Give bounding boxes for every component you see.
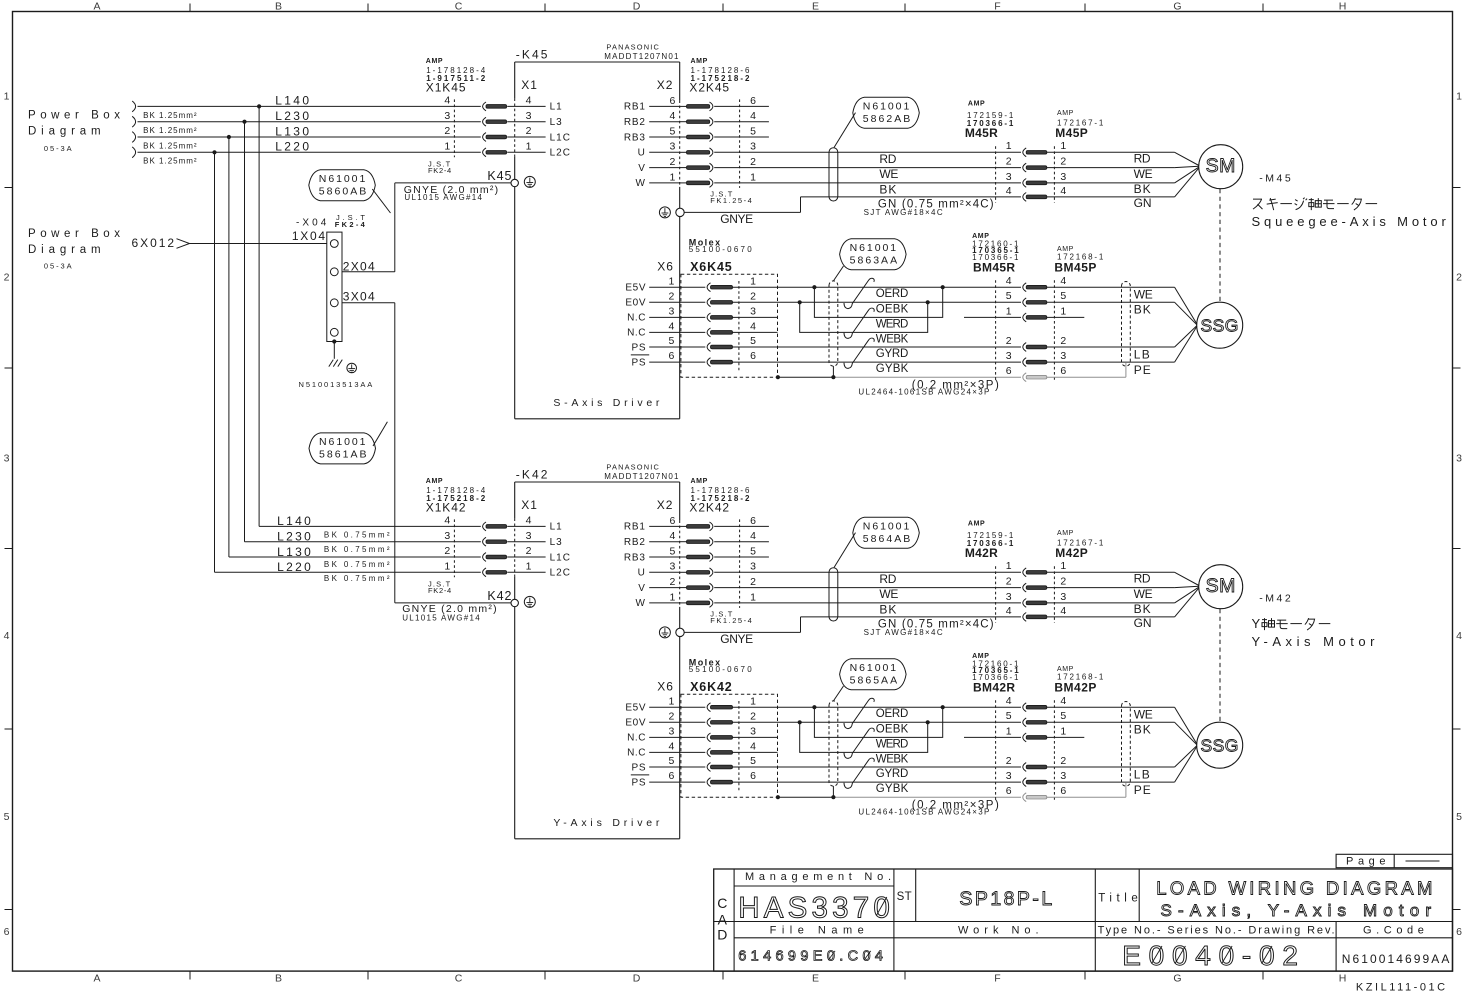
svg-text:3: 3: [1060, 591, 1066, 603]
svg-text:5: 5: [750, 545, 756, 557]
motor phase wires to SM K42: [1047, 572, 1199, 631]
svg-text:E5V: E5V: [625, 283, 646, 294]
svg-text:4: 4: [669, 741, 675, 753]
svg-text:BK: BK: [1134, 182, 1151, 196]
svg-text:OERD: OERD: [876, 288, 909, 300]
svg-text:C: C: [455, 1, 463, 13]
svg-text:L130: L130: [275, 124, 309, 138]
svg-text:BK 0.75mm²: BK 0.75mm²: [324, 530, 390, 539]
svg-text:2: 2: [750, 156, 756, 168]
connector M45R label: [965, 101, 1014, 140]
svg-text:BK 0.75mm²: BK 0.75mm²: [324, 574, 390, 583]
svg-text:1: 1: [670, 171, 676, 183]
terminal block earth: [329, 339, 357, 372]
svg-text:4: 4: [1456, 630, 1462, 642]
svg-text:X6: X6: [657, 680, 674, 694]
connector X1K45 pins: [444, 95, 571, 159]
svg-text:6: 6: [1006, 785, 1012, 797]
servo motor SM -M42: [1199, 565, 1243, 609]
GNYE label K42: [402, 603, 496, 623]
svg-text:PANASONIC: PANASONIC: [606, 462, 659, 471]
motor phase wires to SM K45: [1047, 152, 1199, 211]
svg-text:N.C: N.C: [627, 313, 646, 324]
encoder wire labels K45: [858, 288, 999, 397]
svg-text:N61001: N61001: [863, 521, 910, 533]
svg-text:Power Box: Power Box: [28, 228, 120, 240]
svg-text:4: 4: [4, 630, 10, 642]
earth terminal K45: [487, 169, 535, 188]
svg-text:OERD: OERD: [876, 708, 909, 720]
svg-text:Page: Page: [1346, 856, 1386, 868]
svg-text:2: 2: [669, 710, 675, 722]
svg-text:E0V: E0V: [625, 298, 646, 309]
svg-text:RB3: RB3: [624, 132, 646, 143]
svg-text:3: 3: [526, 110, 532, 122]
svg-text:6: 6: [670, 515, 676, 527]
svg-text:PANASONIC: PANASONIC: [606, 42, 659, 51]
svg-text:LB: LB: [1134, 768, 1150, 782]
svg-text:4: 4: [1060, 275, 1066, 287]
connector X1K42 pins: [444, 515, 571, 579]
svg-text:GNYE: GNYE: [720, 632, 753, 646]
lower feed labels: [277, 514, 390, 583]
wire V phase K45: [714, 167, 1021, 169]
terminal block -X04: [296, 213, 366, 342]
svg-text:GYBK: GYBK: [876, 783, 909, 795]
svg-text:C: C: [717, 895, 727, 911]
svg-text:4: 4: [1060, 605, 1066, 617]
svg-text:V: V: [638, 583, 645, 594]
svg-text:BK: BK: [879, 602, 896, 616]
svg-text:L1: L1: [550, 522, 563, 533]
svg-text:W: W: [635, 178, 645, 189]
svg-text:3: 3: [1006, 350, 1012, 362]
svg-text:X2: X2: [657, 78, 674, 92]
svg-text:5: 5: [1060, 710, 1066, 722]
svg-text:4: 4: [1060, 185, 1066, 197]
cable tag 5863AA: [834, 239, 907, 281]
connector M45P label: [1055, 110, 1104, 140]
svg-text:L1C: L1C: [550, 132, 571, 143]
svg-text:4: 4: [1006, 275, 1012, 287]
svg-text:2: 2: [670, 156, 676, 168]
connector X2K45 label: [689, 58, 750, 94]
wire GNYE K45 motor earth: [684, 197, 1021, 226]
svg-text:-K45: -K45: [516, 48, 548, 62]
svg-text:G: G: [1173, 973, 1181, 985]
svg-text:2: 2: [1060, 335, 1066, 347]
svg-text:Y-Axis Motor: Y-Axis Motor: [1252, 634, 1376, 649]
svg-text:5862AB: 5862AB: [863, 113, 911, 125]
svg-text:3: 3: [750, 561, 756, 573]
svg-text:SP18P-L: SP18P-L: [959, 888, 1052, 910]
svg-text:1: 1: [1006, 725, 1012, 737]
svg-text:1: 1: [750, 591, 756, 603]
svg-text:5864AB: 5864AB: [863, 533, 911, 545]
svg-text:AMP: AMP: [426, 58, 443, 65]
svg-text:N510013513AA: N510013513AA: [299, 380, 373, 389]
svg-text:AMP: AMP: [968, 101, 985, 108]
svg-text:4: 4: [750, 110, 756, 122]
svg-text:GYRD: GYRD: [876, 348, 909, 360]
wire V phase K42: [714, 587, 1021, 589]
svg-text:AMP: AMP: [691, 478, 708, 485]
svg-text:X1K45: X1K45: [426, 80, 466, 94]
svg-text:V: V: [638, 163, 645, 174]
svg-text:L2C: L2C: [550, 568, 571, 579]
svg-text:RB1: RB1: [624, 102, 646, 113]
motor cable sheath K42: [829, 568, 838, 621]
svg-text:PE: PE: [1134, 363, 1151, 377]
svg-text:BK: BK: [1134, 303, 1151, 317]
feed 6X012 entry: [132, 236, 327, 250]
svg-text:3: 3: [4, 453, 10, 465]
wire WEBK parallel loop K45: [800, 302, 928, 332]
svg-text:RB1: RB1: [624, 522, 646, 533]
svg-text:5: 5: [750, 755, 756, 767]
svg-text:5: 5: [1060, 290, 1066, 302]
svg-text:LOAD WIRING DIAGRAM: LOAD WIRING DIAGRAM: [1156, 877, 1432, 898]
link SM to SSG K45: [1219, 189, 1221, 303]
svg-text:SM: SM: [1206, 575, 1236, 597]
connector M45R/M45P pins: [996, 140, 1067, 203]
svg-text:A: A: [718, 911, 728, 927]
svg-text:2: 2: [4, 272, 10, 284]
svg-text:RB2: RB2: [624, 117, 646, 128]
svg-text:6: 6: [750, 350, 756, 362]
svg-text:4: 4: [526, 515, 532, 527]
motor cable sheath K45: [829, 148, 838, 201]
svg-text:1: 1: [1006, 560, 1012, 572]
svg-text:1: 1: [1006, 140, 1012, 152]
connector X2K42 label: [689, 478, 750, 514]
svg-text:L1C: L1C: [550, 552, 571, 563]
svg-text:F: F: [994, 1, 1000, 13]
svg-text:A: A: [93, 1, 100, 13]
svg-text:6: 6: [669, 770, 675, 782]
svg-text:2: 2: [1060, 156, 1066, 168]
twisted pair symbols K45: [844, 278, 874, 368]
svg-text:-M45: -M45: [1259, 173, 1291, 185]
svg-text:BK 0.75mm²: BK 0.75mm²: [324, 545, 390, 554]
svg-text:B: B: [275, 973, 282, 985]
svg-text:M42P: M42P: [1055, 546, 1088, 560]
connector X6K45 shield box: [681, 274, 778, 377]
wire W phase K45: [714, 182, 1021, 184]
svg-text:RB2: RB2: [624, 537, 646, 548]
svg-text:2: 2: [1060, 755, 1066, 767]
GNYE label K45: [404, 184, 498, 202]
svg-text:AMP: AMP: [968, 521, 985, 528]
wire 2X04 to K45 earth: [342, 183, 511, 274]
encoder wires to SSG K45: [1047, 287, 1197, 377]
svg-text:5: 5: [670, 545, 676, 557]
page no. box: [1336, 854, 1452, 867]
svg-text:L3: L3: [550, 117, 563, 128]
wire OEBK E0V K42: [732, 721, 1021, 723]
svg-text:3: 3: [669, 306, 675, 318]
svg-text:HAS3370: HAS3370: [738, 891, 890, 924]
svg-text:X1K42: X1K42: [426, 500, 466, 514]
junction dots encoder K42: [798, 705, 945, 724]
svg-text:H: H: [1339, 973, 1347, 985]
svg-text:K45: K45: [487, 169, 511, 183]
connector X6K42 shield box: [681, 694, 778, 797]
svg-text:MADDT1207N01: MADDT1207N01: [604, 52, 679, 61]
svg-text:WERD: WERD: [876, 738, 909, 750]
svg-text:D: D: [717, 927, 727, 943]
svg-text:WE: WE: [1134, 288, 1153, 302]
svg-text:X6K42: X6K42: [690, 680, 732, 694]
svg-text:WE: WE: [1134, 587, 1153, 601]
svg-text:4: 4: [670, 530, 676, 542]
svg-text:3: 3: [670, 141, 676, 153]
svg-text:1: 1: [1060, 140, 1066, 152]
svg-text:F: F: [994, 973, 1000, 985]
feed drop wires to K42: [212, 104, 480, 572]
svg-text:E: E: [812, 973, 819, 985]
svg-text:2: 2: [526, 125, 532, 137]
svg-text:WE: WE: [879, 587, 898, 601]
svg-text:S-Axis Driver: S-Axis Driver: [553, 397, 660, 409]
svg-text:PS: PS: [632, 357, 647, 368]
svg-text:5: 5: [670, 125, 676, 137]
svg-text:5863AA: 5863AA: [850, 255, 898, 267]
svg-text:UL2464-1061SB AWG24×3P: UL2464-1061SB AWG24×3P: [858, 808, 989, 817]
power box diagram reference 1: [28, 109, 120, 153]
svg-text:X2K42: X2K42: [689, 500, 729, 514]
svg-text:1: 1: [526, 141, 532, 153]
svg-text:1: 1: [4, 91, 10, 103]
svg-text:AMP: AMP: [1057, 530, 1074, 537]
svg-text:ST: ST: [897, 891, 912, 903]
svg-text:1: 1: [1060, 725, 1066, 737]
svg-text:3: 3: [669, 726, 675, 738]
power feed wires L140 L230 L130 L220: [132, 94, 481, 166]
wire WEBK parallel loop K42: [800, 722, 928, 752]
svg-text:2: 2: [1006, 576, 1012, 588]
svg-text:3: 3: [750, 726, 756, 738]
twisted pair symbols K42: [844, 698, 874, 788]
svg-text:6: 6: [4, 926, 10, 938]
svg-text:BK 1.25mm²: BK 1.25mm²: [143, 141, 197, 150]
svg-text:L230: L230: [275, 109, 309, 123]
svg-text:E5V: E5V: [625, 703, 646, 714]
svg-text:6X012: 6X012: [132, 236, 175, 250]
svg-text:D: D: [633, 1, 641, 13]
connector X1K42 label: [426, 478, 486, 514]
svg-text:PS: PS: [632, 777, 647, 788]
svg-text:4: 4: [444, 515, 450, 527]
svg-text:5: 5: [750, 335, 756, 347]
svg-text:4: 4: [444, 95, 450, 107]
svg-text:BM45P: BM45P: [1054, 261, 1096, 275]
wire GYRD PS K45: [732, 346, 1021, 348]
svg-text:L2C: L2C: [550, 148, 571, 159]
svg-text:1: 1: [669, 275, 675, 287]
svg-text:2: 2: [670, 576, 676, 588]
svg-text:M42R: M42R: [965, 546, 998, 560]
svg-text:N.C: N.C: [627, 748, 646, 759]
svg-text:E0V: E0V: [625, 718, 646, 729]
encoder SSG circle K45: [1197, 302, 1243, 348]
svg-text:BK 1.25mm²: BK 1.25mm²: [143, 126, 197, 135]
svg-text:4: 4: [750, 321, 756, 333]
wire U phase K42: [714, 571, 1021, 573]
svg-text:File Name: File Name: [770, 925, 864, 937]
svg-text:-K42: -K42: [516, 468, 548, 482]
encoder cable sheath BM42P side: [1122, 702, 1131, 798]
wire 3X04 to K42 earth: [342, 290, 511, 603]
junction dots encoder K45: [798, 285, 945, 304]
svg-text:2: 2: [1006, 156, 1012, 168]
svg-text:M45R: M45R: [965, 126, 998, 140]
svg-text:U: U: [638, 148, 646, 159]
connector BM45R/BM45P pins: [964, 275, 1084, 382]
connector BM45P label: [1054, 246, 1103, 275]
svg-text:N.C: N.C: [627, 328, 646, 339]
svg-text:Type No.- Series No.- Drawing: Type No.- Series No.- Drawing Rev.: [1098, 925, 1335, 937]
svg-text:GYBK: GYBK: [876, 363, 909, 375]
svg-text:3: 3: [750, 141, 756, 153]
driver K45 box: [515, 62, 680, 419]
wire WERD parallel loop K45: [814, 287, 942, 317]
svg-text:4: 4: [1006, 605, 1012, 617]
svg-text:6: 6: [1060, 365, 1066, 377]
svg-text:X6K45: X6K45: [690, 260, 732, 274]
svg-text:1: 1: [1456, 91, 1462, 103]
wire N.C stubs X6K42: [732, 737, 778, 752]
driver K42 box: [515, 482, 680, 839]
svg-text:Diagram: Diagram: [28, 244, 101, 256]
svg-text:OEBK: OEBK: [876, 303, 909, 315]
svg-text:3: 3: [526, 530, 532, 542]
svg-text:1: 1: [750, 275, 756, 287]
svg-text:6: 6: [750, 95, 756, 107]
svg-text:SSG: SSG: [1200, 316, 1238, 336]
svg-text:WE: WE: [879, 167, 898, 181]
svg-text:RD: RD: [879, 152, 896, 166]
connector BM42P label: [1054, 666, 1103, 695]
connector X2K42 pins: [624, 515, 769, 609]
svg-text:E: E: [812, 1, 819, 13]
svg-text:A: A: [93, 973, 100, 985]
cable tag 5862AB: [834, 97, 919, 147]
svg-text:3: 3: [444, 530, 450, 542]
svg-text:U: U: [638, 568, 646, 579]
svg-text:SSG: SSG: [1200, 736, 1238, 756]
connector X1K45 label: [426, 58, 486, 94]
svg-text:KZIL111-01C: KZIL111-01C: [1356, 982, 1445, 992]
svg-text:2: 2: [1060, 576, 1066, 588]
svg-text:BM45R: BM45R: [973, 261, 1015, 275]
svg-text:Squeegee-Axis Motor: Squeegee-Axis Motor: [1252, 214, 1447, 229]
svg-text:5: 5: [669, 335, 675, 347]
earth symbol X2K42: [659, 627, 684, 638]
svg-text:2: 2: [1456, 272, 1462, 284]
svg-text:GN: GN: [1134, 196, 1152, 210]
wire W phase K42: [714, 602, 1021, 604]
svg-text:4: 4: [670, 110, 676, 122]
svg-text:X1: X1: [521, 498, 538, 512]
svg-text:D: D: [633, 973, 641, 985]
svg-text:UL2464-1061SB AWG24×3P: UL2464-1061SB AWG24×3P: [858, 388, 989, 397]
connector X2K45 pins: [624, 95, 769, 189]
svg-text:N61001: N61001: [319, 173, 366, 185]
svg-text:N61001: N61001: [319, 436, 366, 448]
wire GYBK /PS K42: [732, 781, 1021, 783]
cable tag 5860AB: [309, 170, 391, 213]
svg-text:2: 2: [669, 290, 675, 302]
svg-text:Y: Y: [1252, 616, 1261, 631]
svg-text:SJT AWG#18×4C: SJT AWG#18×4C: [864, 208, 943, 217]
svg-text:BK: BK: [1134, 723, 1151, 737]
shield drain wire K45: [776, 375, 1021, 379]
connector X6K45 label: [689, 237, 753, 273]
motor cable wire labels K45: [864, 152, 994, 217]
connector X6K42 label: [689, 657, 753, 694]
svg-text:Management No.: Management No.: [745, 871, 891, 883]
svg-text:S-Axis, Y-Axis Motor: S-Axis, Y-Axis Motor: [1161, 901, 1432, 920]
power box diagram reference 2: [28, 228, 120, 271]
svg-text:3: 3: [444, 110, 450, 122]
svg-text:55100-0670: 55100-0670: [689, 665, 753, 674]
svg-text:2: 2: [444, 545, 450, 557]
svg-text:1: 1: [1060, 305, 1066, 317]
svg-text:5: 5: [669, 755, 675, 767]
svg-text:BK: BK: [879, 182, 896, 196]
svg-text:5: 5: [4, 811, 10, 823]
svg-text:AMP: AMP: [691, 58, 708, 65]
svg-text:Diagram: Diagram: [28, 125, 101, 137]
svg-text:-X04: -X04: [296, 217, 327, 228]
svg-text:BK 1.25mm²: BK 1.25mm²: [143, 157, 197, 166]
svg-text:55100-0670: 55100-0670: [689, 245, 753, 254]
svg-text:N61001: N61001: [863, 101, 910, 113]
svg-text:RD: RD: [1134, 572, 1151, 586]
svg-text:L1: L1: [550, 102, 563, 113]
svg-text:Title: Title: [1098, 892, 1138, 904]
svg-text:RD: RD: [1134, 152, 1151, 166]
connector BM45R label: [972, 233, 1019, 275]
svg-text:L220: L220: [275, 140, 309, 154]
svg-text:FK2-4: FK2-4: [428, 166, 451, 175]
svg-text:LB: LB: [1134, 348, 1150, 362]
cable tag 5864AB: [834, 517, 919, 567]
encoder SSG circle K42: [1197, 722, 1243, 768]
encoder cable sheath X6K45: [829, 281, 838, 377]
svg-text:G: G: [1173, 1, 1181, 13]
svg-text:-M42: -M42: [1259, 593, 1291, 605]
svg-text:N61001: N61001: [850, 242, 897, 254]
svg-text:BK 1.25mm²: BK 1.25mm²: [143, 111, 197, 120]
wire WERD parallel loop K42: [814, 707, 942, 737]
svg-text:6: 6: [670, 95, 676, 107]
svg-text:3: 3: [1006, 591, 1012, 603]
svg-text:05-3A: 05-3A: [44, 144, 72, 153]
svg-text:L3: L3: [550, 537, 563, 548]
svg-text:AMP: AMP: [426, 478, 443, 485]
encoder cable sheath X6K42: [829, 701, 838, 797]
svg-text:AMP: AMP: [1057, 110, 1074, 117]
svg-text:4: 4: [669, 321, 675, 333]
wire U phase K45: [714, 151, 1021, 153]
svg-text:SM: SM: [1206, 155, 1236, 177]
wire OERD E5V K45: [732, 286, 1021, 288]
svg-text:3: 3: [1060, 770, 1066, 782]
svg-text:MADDT1207N01: MADDT1207N01: [604, 472, 679, 481]
svg-text:1: 1: [526, 561, 532, 573]
